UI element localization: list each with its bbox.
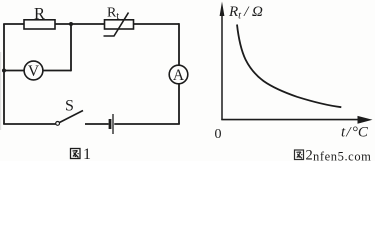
switch S pivot [56,122,60,126]
svg-text:R: R [34,4,45,23]
svg-text:V: V [28,63,40,80]
wire: bottom right segment to battery [114,123,180,125]
battery positive plate (long thin) [112,114,114,134]
ammeter A [169,65,188,84]
svg-text:0: 0 [215,127,222,142]
battery negative plate (short thick) [109,119,112,129]
wire: left vertical side of loop [3,24,5,124]
thermistor Rt body [105,20,134,29]
svg-text:S: S [65,98,74,115]
caption 图1 (drawn glyph) [71,149,81,159]
thermistor Rt slash mark [104,13,129,37]
switch S blade (open) [59,111,83,123]
wire: right vertical upper segment to ammeter [178,23,180,65]
svg-text:t / °C: t / °C [341,125,369,141]
wire: top right segment from Rt to corner [134,23,180,25]
graph: y axis [221,12,223,120]
wire: bottom segment battery to switch contact [85,123,109,125]
graph: Rt vs t curve [237,25,341,108]
graph: y axis arrowhead [220,2,225,17]
wire: voltmeter branch riser to top wire [70,24,72,71]
svg-text:Rt: Rt [107,6,119,23]
svg-text:A: A [173,67,185,84]
svg-text:2: 2 [306,147,313,161]
svg-text:Rt / Ω: Rt / Ω [228,4,263,22]
svg-text:nfen5.com: nfen5.com [313,150,372,162]
wire: top middle segment between R and Rt [55,23,105,25]
resistor R [24,20,55,29]
node: junction of voltmeter branch on top wire [69,22,73,26]
caption 图2 (drawn glyph) [295,150,304,160]
node: junction of voltmeter branch on left wire [2,69,6,73]
wire: voltmeter branch left lead [4,70,24,72]
scan edge artifact left [0,52,1,130]
svg-text:1: 1 [83,146,91,161]
wire: right vertical lower segment from ammeter [178,84,180,124]
voltmeter V [24,61,43,80]
wire: bottom left segment from switch to corner [3,123,55,125]
wire: top left segment to resistor R [3,23,24,25]
wire: voltmeter branch right lead [43,70,71,72]
graph: x axis [221,119,360,121]
graph: x axis arrowhead [358,116,373,124]
